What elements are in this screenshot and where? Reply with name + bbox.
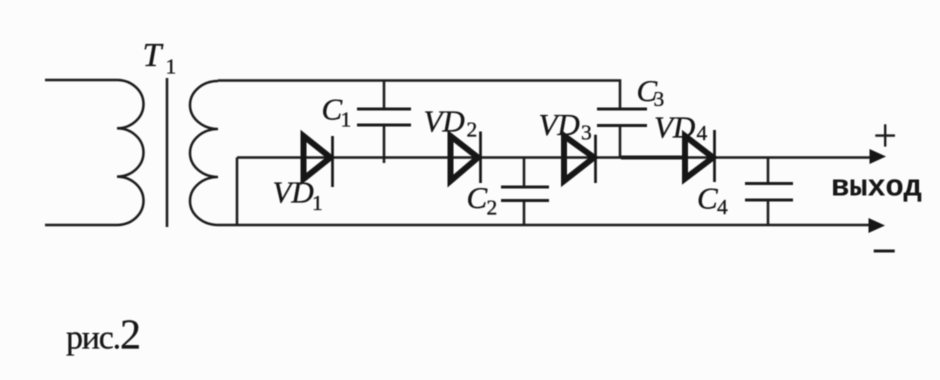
svg-text:4: 4 (717, 195, 728, 219)
svg-text:VD: VD (654, 109, 695, 144)
svg-text:C: C (697, 181, 718, 216)
svg-text:2: 2 (467, 118, 478, 142)
svg-text:VD: VD (424, 103, 465, 138)
svg-text:2: 2 (487, 196, 498, 220)
svg-text:C: C (467, 180, 488, 215)
svg-text:1: 1 (341, 108, 352, 132)
svg-text:выход: выход (831, 171, 922, 206)
svg-text:4: 4 (697, 121, 708, 145)
svg-text:3: 3 (581, 121, 592, 145)
svg-text:T: T (143, 37, 164, 74)
svg-text:рис.2: рис.2 (66, 313, 140, 359)
svg-text:VD: VD (273, 175, 314, 210)
svg-text:1: 1 (166, 55, 177, 79)
svg-text:VD: VD (539, 107, 580, 142)
svg-text:3: 3 (654, 87, 665, 111)
svg-text:1: 1 (312, 191, 323, 215)
svg-text:C: C (322, 92, 343, 127)
